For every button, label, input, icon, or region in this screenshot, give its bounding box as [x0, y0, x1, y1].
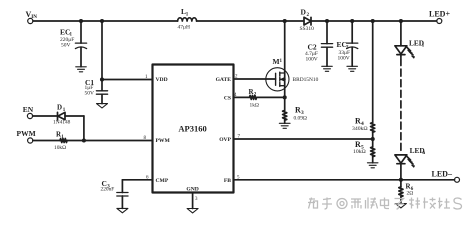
svg-text:2Ω: 2Ω: [407, 191, 414, 197]
svg-text:n: n: [422, 151, 425, 156]
svg-text:10kΩ: 10kΩ: [353, 149, 366, 155]
svg-text:D: D: [57, 104, 62, 112]
svg-text:OVP: OVP: [219, 137, 231, 143]
svg-text:CMP: CMP: [156, 178, 169, 184]
svg-text:GATE: GATE: [216, 77, 232, 83]
svg-text:1N4148: 1N4148: [53, 119, 71, 125]
svg-text:FB: FB: [224, 178, 231, 184]
svg-text:LED+: LED+: [429, 10, 450, 19]
svg-text:PWM: PWM: [17, 129, 36, 138]
svg-text:LED–: LED–: [432, 169, 453, 178]
svg-text:BRD15N10: BRD15N10: [293, 77, 319, 83]
svg-text:IN: IN: [31, 14, 37, 20]
svg-text:50V: 50V: [85, 91, 95, 97]
svg-text:CS: CS: [224, 95, 231, 101]
svg-text:PWM: PWM: [156, 138, 171, 144]
svg-text:0.09Ω: 0.09Ω: [294, 116, 307, 122]
svg-text:10kΩ: 10kΩ: [54, 145, 66, 151]
svg-text:100V: 100V: [338, 55, 350, 61]
svg-text:47μH: 47μH: [178, 25, 190, 31]
svg-text:AP3160: AP3160: [178, 124, 206, 134]
svg-text:SS310: SS310: [300, 26, 315, 32]
svg-text:GND: GND: [186, 187, 198, 193]
svg-text:EN: EN: [23, 105, 34, 114]
svg-text:VDD: VDD: [156, 77, 168, 83]
svg-text:1kΩ: 1kΩ: [250, 103, 259, 109]
svg-text:220nF: 220nF: [101, 186, 115, 192]
svg-text:340kΩ: 340kΩ: [352, 126, 368, 132]
svg-text:100V: 100V: [306, 56, 318, 62]
svg-text:50V: 50V: [61, 43, 71, 49]
